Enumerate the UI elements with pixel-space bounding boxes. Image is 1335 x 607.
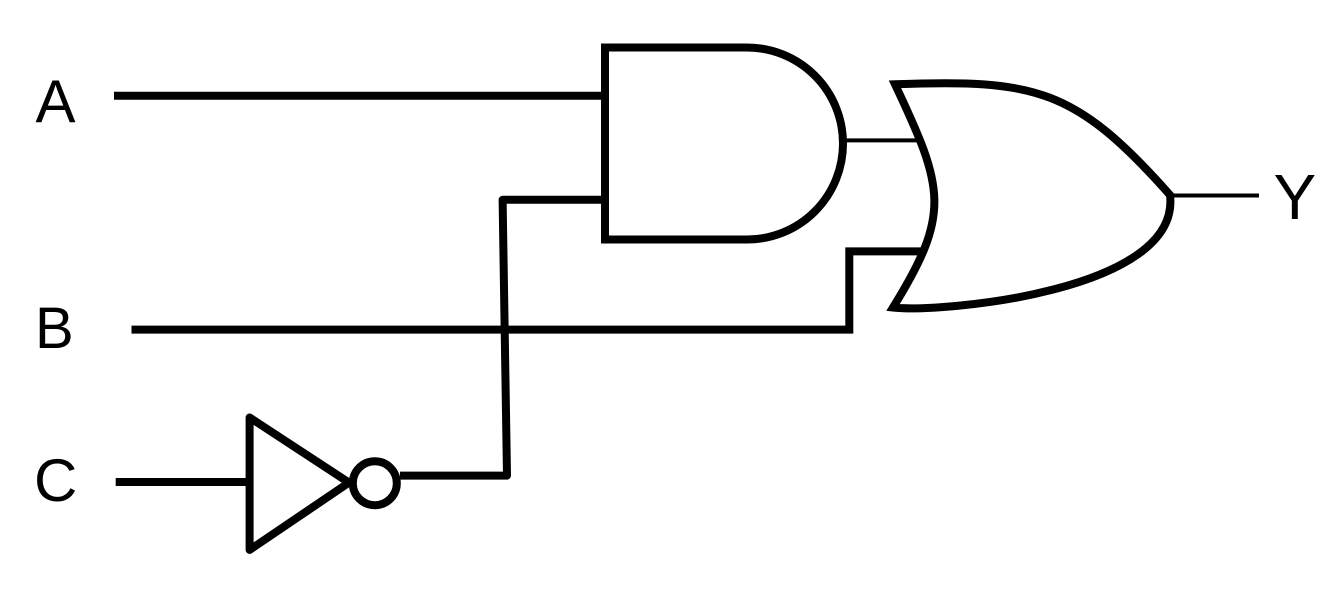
wire: input B right, up, into OR gate lower input [132,251,926,329]
svg-text:B: B [35,296,74,361]
OR gate [893,83,1170,308]
svg-text:Y: Y [1274,161,1317,233]
AND gate [605,48,843,240]
svg-text:C: C [34,447,77,514]
wire: OR gate output to Y [1170,194,1259,198]
svg-text:A: A [36,68,76,135]
wire: input A to AND gate upper input [114,92,605,100]
NOT gate (inverter) triangle [250,418,349,550]
wire: AND gate output to OR gate upper input [843,138,922,142]
wire: NOT gate output right, up (crossing wire B), into AND gate lower input [400,200,605,476]
wire: input C to NOT gate [116,478,250,486]
NOT gate inversion bubble [353,461,397,505]
